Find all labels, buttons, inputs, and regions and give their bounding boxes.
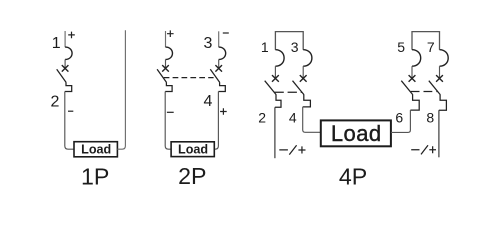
mechanical coupling dashed link (2P) bbox=[164, 77, 214, 79]
load box (1P) bbox=[74, 142, 117, 157]
wire: hook to fixed contact (1P) bbox=[64, 60, 66, 69]
contact cross X (4P pole 3) bbox=[300, 75, 307, 82]
latch step (4P pole 5) bbox=[410, 94, 419, 110]
svg-text:2: 2 bbox=[51, 94, 60, 111]
wire: 4P pole 3 to load bbox=[303, 107, 321, 132]
svg-text:7: 7 bbox=[427, 39, 435, 55]
mechanical coupling dashed link (4P poles 1-3) bbox=[275, 91, 303, 93]
wire: hook to fixed contact (4P pole 1) bbox=[274, 66, 276, 78]
wire: 4P pole 1 bottom lead bbox=[274, 107, 276, 158]
switch blade (4P pole 1) bbox=[265, 81, 276, 95]
svg-text:3: 3 bbox=[291, 39, 299, 55]
svg-text:Load: Load bbox=[81, 143, 111, 157]
wire: 1P pole to load bbox=[65, 92, 74, 150]
breaker release hook (2P pole A) bbox=[166, 47, 173, 59]
switch blade (4P pole 3) bbox=[293, 81, 304, 95]
breaker release hook (4P pole 1) bbox=[275, 50, 284, 66]
contact cross X (4P pole 1) bbox=[272, 75, 279, 82]
switch blade (2P pole B) bbox=[210, 69, 219, 82]
svg-text:4: 4 bbox=[289, 110, 297, 126]
wire: 2P pole B supply lead bbox=[218, 31, 220, 47]
switch blade (4P pole 5) bbox=[401, 81, 412, 95]
wire: 1P load return bbox=[117, 30, 125, 149]
breaker release hook (4P pole 3) bbox=[303, 50, 312, 66]
wire: hook to fixed contact (4P pole 3) bbox=[302, 66, 304, 78]
wire: 1P supply lead (terminal 1) bbox=[64, 31, 66, 47]
wire: 2P pole A supply lead bbox=[165, 31, 167, 47]
contact cross X (4P pole 5) bbox=[409, 75, 416, 82]
wire: hook to fixed contact (2P pole A) bbox=[165, 60, 167, 69]
polarity − at pole A bottom bbox=[167, 111, 174, 113]
wire: 4P pole 5 to load bbox=[391, 110, 411, 132]
polarity + at terminal 1 bbox=[68, 32, 75, 39]
switch blade (2P pole A) bbox=[157, 69, 166, 82]
load box (2P) bbox=[171, 142, 214, 157]
svg-text:1P: 1P bbox=[81, 164, 109, 190]
svg-text:2: 2 bbox=[258, 110, 266, 126]
wire: 4P bridge poles 1-3 bbox=[275, 32, 303, 50]
svg-text:Load: Load bbox=[178, 143, 208, 157]
polarity − at pole B top bbox=[223, 32, 229, 34]
latch step (2P pole B) bbox=[218, 82, 225, 91]
polarity −/+ below pole 2 terminal bbox=[279, 145, 305, 154]
polarity −/+ below pole 8 terminal bbox=[411, 145, 436, 154]
wire: hook to fixed contact (4P pole 7) bbox=[439, 66, 441, 78]
contact cross X (2P pole B) bbox=[215, 65, 222, 72]
contact cross X (1P) bbox=[62, 65, 69, 72]
svg-text:3: 3 bbox=[203, 35, 212, 52]
wire: 4P pole 7 bottom lead bbox=[438, 110, 440, 157]
wire: 2P pole A to load bbox=[165, 92, 171, 150]
svg-text:5: 5 bbox=[397, 39, 405, 55]
latch step (4P pole 7) bbox=[439, 94, 447, 110]
polarity − at terminal 2 bbox=[68, 110, 73, 112]
svg-text:Load: Load bbox=[331, 121, 382, 146]
switch blade (1P pole) bbox=[57, 69, 66, 82]
mechanical coupling dashed link (4P poles 5-7) bbox=[411, 91, 438, 93]
latch step (1P pole) bbox=[65, 82, 72, 91]
breaker release hook (2P pole B) bbox=[219, 47, 226, 59]
wire: 2P pole B to load bbox=[214, 92, 218, 150]
svg-text:2P: 2P bbox=[178, 163, 206, 189]
contact cross X (2P pole A) bbox=[162, 65, 169, 72]
latch step (4P pole 3) bbox=[303, 94, 311, 107]
svg-text:8: 8 bbox=[426, 110, 434, 126]
wire: hook to fixed contact (4P pole 5) bbox=[411, 66, 413, 78]
polarity + at pole A top bbox=[167, 30, 174, 37]
load box (4P) bbox=[321, 120, 391, 146]
svg-text:6: 6 bbox=[395, 109, 403, 125]
latch step (4P pole 1) bbox=[275, 94, 281, 107]
svg-text:4P: 4P bbox=[339, 164, 367, 190]
breaker release hook (1P) bbox=[65, 47, 72, 59]
svg-text:4: 4 bbox=[204, 93, 213, 110]
wire: hook to fixed contact (2P pole B) bbox=[218, 60, 220, 69]
switch blade (4P pole 7) bbox=[429, 81, 440, 95]
contact cross X (4P pole 7) bbox=[436, 75, 443, 82]
breaker release hook (4P pole 7) bbox=[440, 50, 449, 66]
latch step (2P pole A) bbox=[165, 82, 172, 91]
breaker release hook (4P pole 5) bbox=[412, 50, 421, 66]
svg-text:1: 1 bbox=[261, 39, 269, 55]
wire: 4P bridge poles 5-7 bbox=[412, 32, 440, 50]
svg-text:1: 1 bbox=[52, 35, 61, 52]
polarity + at pole B bottom bbox=[220, 108, 227, 115]
